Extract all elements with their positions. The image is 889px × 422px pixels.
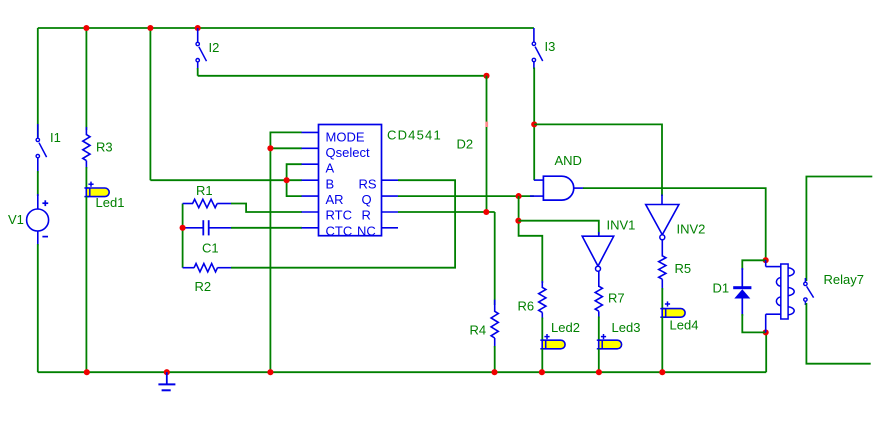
node B input junction <box>284 177 290 183</box>
node bottom rail R4 junction <box>491 369 497 375</box>
label R5 <box>675 261 692 276</box>
node relay coil bottom junction <box>763 329 769 335</box>
svg-text:RS: RS <box>359 176 377 191</box>
label Led3 <box>612 320 641 335</box>
relay contact switch <box>804 278 814 305</box>
svg-text:R4: R4 <box>470 323 487 338</box>
wire left column V1 upper <box>37 28 39 137</box>
led Led2 <box>540 340 565 349</box>
wire R3 branch upper <box>85 28 87 130</box>
wire R3 to Led1 <box>85 167 87 189</box>
diode D2 mark <box>485 122 488 127</box>
label I3 <box>545 39 556 54</box>
wire Q branch down <box>519 196 543 283</box>
svg-text:Relay7: Relay7 <box>824 272 864 287</box>
node top rail R3 junction <box>83 25 89 31</box>
label INV1 <box>607 218 636 233</box>
svg-text:A: A <box>326 161 335 176</box>
switch I2 <box>196 28 207 70</box>
svg-text:R3: R3 <box>96 140 113 155</box>
inverter INV2 <box>646 195 679 240</box>
V1 minus sign <box>42 236 48 238</box>
label CD4541 <box>387 128 442 143</box>
svg-text:Led4: Led4 <box>670 318 699 333</box>
label R4 <box>470 323 487 338</box>
and gate AND <box>530 176 583 200</box>
label V1 <box>8 212 24 227</box>
svg-text:Q: Q <box>362 192 372 207</box>
label D1 <box>713 281 730 296</box>
node Q row junction <box>516 193 522 199</box>
svg-text:MODE: MODE <box>326 129 365 144</box>
label Led4 <box>670 318 699 333</box>
node bottom rail ground column junction <box>267 369 273 375</box>
CD4541 right pin labels <box>357 176 377 238</box>
label R2 <box>195 279 212 294</box>
wire R1 to RTC pin <box>231 204 302 213</box>
wire C1 to CTC pin <box>231 227 302 229</box>
svg-text:R2: R2 <box>195 279 212 294</box>
node I2 wire D2 column junction <box>483 73 489 79</box>
label INV2 <box>677 222 706 237</box>
svg-text:INV1: INV1 <box>607 218 636 233</box>
node bottom rail Led2 junction <box>539 369 545 375</box>
wire I3 down to AND <box>533 68 535 181</box>
wire R5 to Led4 <box>661 288 663 309</box>
label Relay7 <box>824 272 864 287</box>
resistor R5 <box>659 256 666 290</box>
svg-text:I1: I1 <box>50 130 61 145</box>
capacitor C1 <box>184 220 231 235</box>
wire R output row <box>398 211 495 213</box>
wire Led3 to bottom rail <box>598 349 600 372</box>
Led2 plus sign <box>544 334 549 339</box>
node bottom rail Led4 junction <box>659 369 665 375</box>
wire R4 to bottom rail <box>494 346 496 372</box>
wire AND output to relay <box>583 188 766 260</box>
wire relay contact bottom <box>806 303 870 364</box>
svg-text:Led3: Led3 <box>612 320 641 335</box>
wire R row down to R4 <box>494 212 496 305</box>
svg-text:D2: D2 <box>457 137 474 152</box>
label D2 <box>457 137 474 152</box>
wire I2 to D2 column <box>198 68 487 76</box>
node bottom rail Led3 junction <box>596 369 602 375</box>
resistor R1 <box>183 199 232 207</box>
node Qselect junction <box>267 145 273 151</box>
wire bottom rail riser to relay node <box>765 332 767 372</box>
svg-text:RTC: RTC <box>326 208 352 223</box>
svg-text:R6: R6 <box>518 299 535 314</box>
wire R7 to Led3 <box>598 317 600 341</box>
resistor R2 <box>183 264 232 272</box>
node R row D2 junction <box>483 209 489 215</box>
wire Q output row <box>398 195 534 197</box>
svg-text:R: R <box>362 208 371 223</box>
wire bottom rail <box>87 371 766 373</box>
wire Led1 to bottom rail <box>85 197 87 373</box>
wire Led2 to bottom rail <box>541 349 543 372</box>
wire B-input vertical from top rail <box>149 28 151 180</box>
resistor R6 <box>539 281 546 319</box>
wire Qselect branch <box>270 147 301 149</box>
svg-text:INV2: INV2 <box>677 222 706 237</box>
svg-text:Qselect: Qselect <box>326 145 370 160</box>
svg-text:R5: R5 <box>675 261 692 276</box>
led Led3 <box>597 340 622 349</box>
label Led2 <box>551 320 580 335</box>
node bottom rail ground junction <box>164 369 170 375</box>
wire top power rail <box>38 27 534 29</box>
wire R2 to RS pin <box>231 180 455 268</box>
svg-text:V1: V1 <box>8 212 24 227</box>
CD4541 left pin stubs <box>302 132 319 227</box>
inverter INV1 <box>582 232 614 271</box>
svg-text:I3: I3 <box>545 39 556 54</box>
wire INV1 input <box>518 221 598 235</box>
Led3 plus sign <box>601 334 606 339</box>
label C1 <box>202 241 219 256</box>
label I1 <box>50 130 61 145</box>
svg-text:AR: AR <box>326 192 344 207</box>
label R7 <box>608 291 625 306</box>
label R6 <box>518 299 535 314</box>
switch I1 <box>36 124 47 173</box>
CD4541 right pin stubs <box>382 180 399 228</box>
wire INV1 output to R7 <box>598 271 600 287</box>
svg-text:Led1: Led1 <box>96 195 125 210</box>
node I3 branch junction <box>531 121 537 127</box>
switch I3 <box>532 28 543 69</box>
svg-text:AND: AND <box>555 153 582 168</box>
label R1 <box>196 183 213 198</box>
wire INV2 output to R5 <box>661 240 663 257</box>
resistor R7 <box>595 286 602 318</box>
wire I1 to V1 <box>37 171 39 196</box>
node INV1 branch junction <box>515 218 521 224</box>
svg-text:Led2: Led2 <box>551 320 580 335</box>
svg-text:B: B <box>326 176 335 191</box>
svg-text:CD4541: CD4541 <box>387 128 442 143</box>
wire A-B-AR tie vertical <box>287 164 302 196</box>
label I2 <box>209 40 220 55</box>
wire B-input horizontal <box>150 179 301 181</box>
svg-text:R1: R1 <box>196 183 213 198</box>
node top rail I2 junction <box>195 25 201 31</box>
label Led1 <box>96 195 125 210</box>
CD4541 left pin labels <box>326 129 370 238</box>
relay Relay7 coil <box>766 260 794 332</box>
wire relay contact top <box>806 177 872 282</box>
svg-text:I2: I2 <box>209 40 220 55</box>
svg-text:NC: NC <box>357 223 376 238</box>
led Led1 <box>84 188 109 197</box>
V1 plus sign <box>42 200 48 206</box>
wire V1 to bottom rail <box>38 244 87 372</box>
node C1 left junction <box>180 225 186 231</box>
svg-text:CTC: CTC <box>326 223 353 238</box>
node relay coil top junction <box>763 257 769 263</box>
Led1 plus sign <box>88 182 93 187</box>
svg-text:C1: C1 <box>202 241 219 256</box>
label R3 <box>96 140 113 155</box>
node bottom rail Led1 junction <box>84 369 90 375</box>
led Led4 <box>660 309 685 318</box>
wire Led4 to bottom rail <box>661 317 663 372</box>
op-amp U1 CD4541 box <box>319 125 382 236</box>
ground <box>158 372 175 390</box>
wire D2 column <box>486 76 488 212</box>
resistor R4 <box>491 300 498 348</box>
wire R1 C1 R2 left vertical <box>182 204 184 268</box>
diode D1 <box>733 260 766 332</box>
label AND <box>555 153 582 168</box>
wire R6 to Led2 <box>541 318 543 341</box>
Led4 plus sign <box>665 301 670 306</box>
node top rail B-wire junction <box>147 25 153 31</box>
wire I3 branch to INV2 column <box>534 124 662 196</box>
voltage source V1 <box>27 194 49 246</box>
wire MODE-Qselect ground column <box>270 132 301 372</box>
svg-text:D1: D1 <box>713 281 730 296</box>
svg-text:R7: R7 <box>608 291 625 306</box>
resistor R3 <box>83 127 90 169</box>
